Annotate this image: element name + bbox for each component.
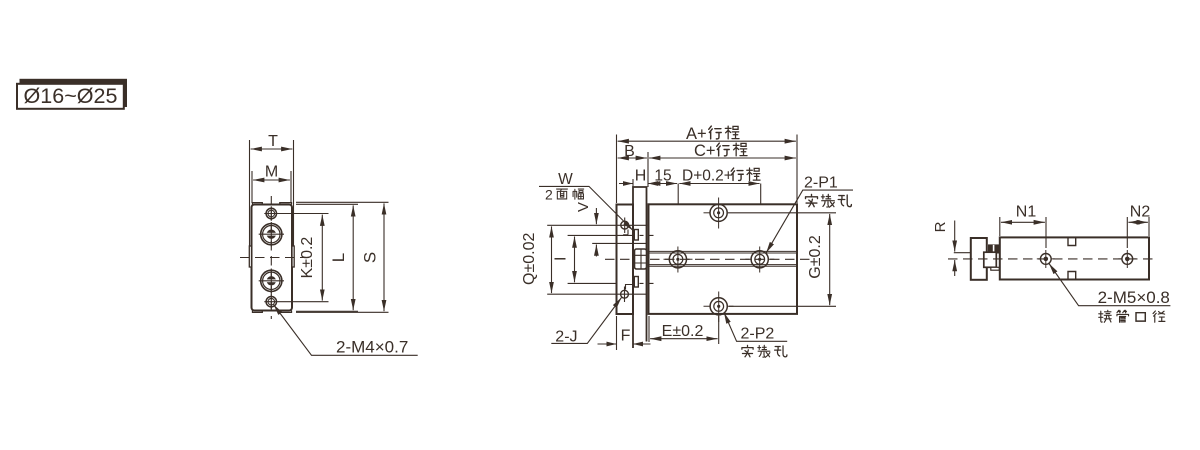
- strip tab top: [634, 230, 638, 241]
- thread hole M4 bottom: [264, 295, 328, 309]
- rod bottom flat line: [547, 293, 646, 295]
- rod axis line bottom: [568, 282, 617, 284]
- leader 2-M4x0.7: [274, 305, 418, 356]
- plate bottom ridge: [253, 311, 292, 313]
- centerline: [605, 258, 810, 260]
- dim R arrows: [954, 221, 956, 252]
- svg-text:T: T: [268, 133, 278, 150]
- dim V arrows: [595, 208, 597, 224]
- leader 2-P1: [766, 190, 853, 253]
- dim N1 extension lines: [1000, 217, 1046, 248]
- svg-text:K±0.2: K±0.2: [299, 237, 316, 279]
- svg-text:L: L: [329, 253, 348, 262]
- plate circle elbow bottom: [626, 285, 635, 290]
- dim A extension lines: [617, 135, 798, 204]
- counterbore hole bottom: [259, 269, 284, 294]
- svg-text:R: R: [932, 221, 949, 232]
- svg-text:M: M: [265, 164, 278, 181]
- dim M extension lines: [252, 171, 291, 203]
- dim A+stroke: [618, 140, 796, 142]
- plate outline: [252, 205, 293, 311]
- dim T: [251, 148, 293, 150]
- leader 2-M5x0.8: [1049, 264, 1170, 306]
- svg-text:Q±0.02: Q±0.02: [521, 233, 538, 285]
- svg-text:W: W: [558, 171, 573, 188]
- label jie guan kou jing: [1099, 310, 1111, 322]
- dim N2 extension lines: [1127, 217, 1149, 248]
- svg-text:N2: N2: [1130, 204, 1151, 221]
- dim 15: [649, 183, 677, 185]
- sensor notch top: [1068, 237, 1076, 245]
- dim B: [618, 157, 647, 159]
- svg-text:Ø16~Ø25: Ø16~Ø25: [24, 85, 118, 108]
- plate left tab: [249, 246, 251, 267]
- dim M: [253, 179, 290, 181]
- dim L extension lines: [296, 204, 358, 311]
- label an zhuang kong (P1): [806, 194, 818, 206]
- sensor notch bottom: [1068, 272, 1076, 280]
- dim K: [321, 215, 323, 301]
- dim N2: [1128, 221, 1148, 223]
- bracket strip: [633, 187, 647, 348]
- svg-text:2-M5×0.8: 2-M5×0.8: [1098, 288, 1170, 307]
- leader W: [539, 186, 633, 230]
- title box: [17, 84, 124, 109]
- strip tab bottom: [634, 277, 638, 288]
- port M5 right: [1118, 250, 1136, 268]
- dim S: [383, 203, 385, 311]
- leader 2-J: [551, 298, 621, 344]
- dim F (outside arrows): [598, 343, 651, 345]
- rod block: [984, 252, 997, 267]
- counterbore hole top: [259, 222, 284, 247]
- body outline: [649, 204, 798, 314]
- rod axis ticks: [640, 235, 654, 283]
- rod step: [991, 267, 1000, 270]
- dim G extension lines: [728, 213, 836, 306]
- dim D+0.2+stroke: [679, 183, 759, 185]
- center nut cluster: [635, 249, 647, 269]
- svg-text:S: S: [361, 252, 380, 263]
- dim T extension lines: [250, 140, 294, 246]
- centerline horizontal: [240, 257, 304, 259]
- leader 2-P2: [724, 313, 787, 342]
- rod nut block: [989, 245, 1000, 253]
- body outline (right view): [1000, 237, 1149, 279]
- dim S extension lines: [296, 202, 389, 312]
- svg-text:N1: N1: [1016, 204, 1037, 221]
- dim C+stroke: [649, 157, 796, 159]
- mounting hole P1 right: [745, 247, 774, 273]
- svg-text:H: H: [635, 168, 647, 185]
- dim N1: [1001, 221, 1045, 223]
- dim E extension lines: [649, 316, 719, 344]
- dim G: [829, 214, 831, 305]
- extension lines to middle holes: [678, 184, 761, 248]
- centerline vertical: [270, 196, 272, 319]
- rod flat inner line: [592, 242, 647, 244]
- svg-text:C+: C+: [694, 142, 716, 160]
- dim L: [352, 205, 354, 310]
- svg-text:D+0.2+: D+0.2+: [682, 168, 733, 185]
- svg-text:15: 15: [654, 168, 671, 185]
- rod plate (side): [617, 205, 634, 315]
- label an zhuang kong (P2): [742, 345, 753, 356]
- svg-text:F: F: [621, 328, 631, 345]
- svg-text:2-P2: 2-P2: [741, 326, 775, 343]
- svg-text:I: I: [553, 257, 570, 261]
- thread hole M4 top: [264, 206, 328, 220]
- centerline (right view): [948, 258, 1157, 260]
- dim H (outside arrows): [619, 183, 661, 185]
- plate circle elbow top: [623, 230, 628, 235]
- port M5 left: [1037, 250, 1055, 268]
- dim F extension line: [616, 316, 618, 350]
- end plate (side): [971, 238, 987, 280]
- body slide lines: [649, 251, 798, 266]
- svg-text:2-P1: 2-P1: [804, 175, 838, 192]
- dim I: [574, 237, 576, 283]
- svg-text:A+: A+: [686, 125, 707, 143]
- dim C extension line right shared; line at body left: [647, 152, 649, 187]
- dim R extension line: [954, 252, 990, 254]
- svg-text:B: B: [624, 143, 635, 160]
- svg-text:2-M4×0.7: 2-M4×0.7: [336, 338, 408, 357]
- svg-text:G±0.2: G±0.2: [807, 235, 824, 279]
- dim E: [650, 338, 718, 340]
- dim Q: [551, 226, 553, 293]
- rod top flat line: [547, 224, 647, 226]
- svg-text:2: 2: [545, 187, 553, 203]
- rod axis line top: [568, 234, 632, 236]
- plate right tab: [292, 246, 294, 267]
- plate top ridge: [253, 203, 292, 205]
- plate set screw bottom: [621, 287, 629, 303]
- mounting hole P1 left: [664, 247, 693, 273]
- plate set screw top: [621, 218, 629, 234]
- svg-text:V: V: [575, 202, 592, 212]
- bottom hole P2: [704, 292, 734, 323]
- top hole: [704, 198, 728, 229]
- title box shadow: [20, 79, 128, 107]
- svg-text:E±0.2: E±0.2: [662, 323, 704, 340]
